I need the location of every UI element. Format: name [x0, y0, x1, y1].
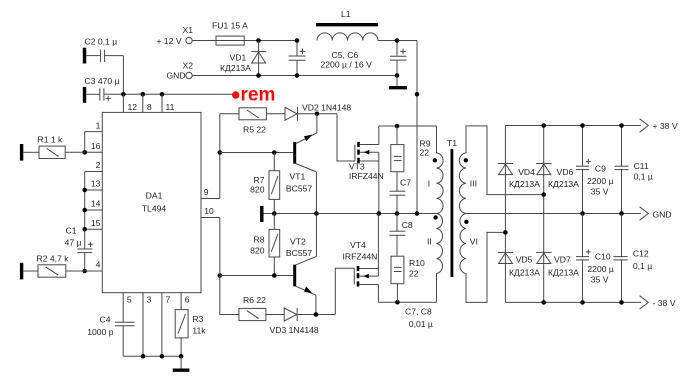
svg-text:КД213А: КД213А: [509, 179, 540, 189]
svg-text:IRFZ44N: IRFZ44N: [343, 252, 378, 262]
wire L1 to corner: [378, 40, 417, 42]
capacitor C1 47u: [65, 225, 94, 271]
node C1 bottom / pin4: [82, 269, 87, 274]
node pin7 bottom: [160, 354, 165, 359]
wire pin10 down to R6: [220, 218, 239, 315]
ground bar middle rail: [260, 206, 263, 222]
svg-text:2200 µ: 2200 µ: [587, 176, 614, 186]
op-amp/controller IC DA1 TL494: [102, 112, 201, 292]
ground at IC bottom: [173, 356, 190, 370]
pin 10 stub: [201, 217, 220, 219]
svg-text:11k: 11k: [192, 325, 206, 335]
svg-text:C11: C11: [634, 161, 649, 171]
svg-text:35 V: 35 V: [591, 274, 609, 284]
node C5 top: [295, 38, 300, 43]
svg-text:8: 8: [147, 102, 152, 112]
diode string VD4/VD5 vertical: [504, 126, 506, 303]
svg-text:C7, C8: C7, C8: [405, 306, 432, 316]
svg-text:DA1: DA1: [146, 190, 163, 200]
wire VT3 drain to winding I: [379, 125, 437, 127]
wire X1 to FU1: [192, 40, 216, 42]
diode VD6 КД213А: [536, 164, 579, 190]
node C11 bottom: [619, 211, 624, 216]
svg-text:TL494: TL494: [142, 204, 167, 214]
diode string VD6/VD7 vertical: [543, 126, 545, 303]
resistor R10 22: [391, 256, 425, 302]
svg-text:X2: X2: [183, 60, 194, 70]
pin 7 wire: [161, 293, 163, 357]
IC supply wire to rem point: [123, 93, 235, 95]
svg-text:4: 4: [96, 259, 101, 269]
svg-text:КД213А: КД213А: [220, 63, 251, 73]
capacitor C7: [390, 178, 412, 214]
terminal X1 +12V: [157, 25, 194, 46]
svg-text:3: 3: [147, 295, 152, 305]
node C5 bottom: [295, 73, 300, 78]
svg-text:R3: R3: [192, 314, 203, 324]
svg-text:6: 6: [185, 295, 190, 305]
wire VT2 collector up: [315, 214, 317, 257]
svg-text:47 µ: 47 µ: [65, 238, 82, 248]
svg-text:1000 p: 1000 p: [87, 327, 114, 337]
node pin8 stub: [141, 92, 146, 97]
svg-text:VD4: VD4: [518, 167, 535, 177]
svg-text:- 38 V: - 38 V: [653, 298, 676, 308]
rem marker (red): [232, 85, 275, 106]
diode VD7 КД213А: [536, 252, 579, 277]
pin 6 wire: [180, 293, 182, 310]
+38V rail: [505, 119, 677, 132]
capacitor C2 0,1u: [85, 37, 124, 64]
svg-text:rem: rem: [241, 85, 276, 106]
svg-text:КД213А: КД213А: [548, 179, 579, 189]
svg-text:+ 12 V: + 12 V: [157, 36, 182, 46]
svg-text:R6 22: R6 22: [243, 295, 266, 305]
node VT3 source on rail: [377, 211, 382, 216]
node R8 bottom: [272, 273, 277, 278]
-38V rail: [505, 296, 675, 309]
label C5,C6: [321, 50, 373, 69]
svg-text:III: III: [470, 178, 477, 188]
inductor L1: [316, 9, 378, 41]
svg-text:12: 12: [128, 102, 138, 112]
svg-text:16: 16: [91, 141, 101, 151]
resistor R6 22: [239, 295, 284, 320]
svg-text:22: 22: [409, 268, 419, 278]
diode VD1 КД213А: [220, 41, 266, 76]
transistor VT2 BC557: [286, 237, 317, 315]
svg-text:C7: C7: [400, 178, 411, 188]
node C6 top: [395, 38, 400, 43]
svg-text:VD2 1N4148: VD2 1N4148: [302, 102, 351, 112]
wire node to VT4 gate: [335, 268, 354, 314]
wire VT1 collector down: [315, 172, 317, 214]
resistor R2 4,7k: [22, 254, 103, 280]
svg-text:VT4: VT4: [350, 240, 366, 250]
capacitor C4 1000p: [87, 314, 134, 356]
resistor R3 11k: [175, 310, 206, 357]
svg-text:VD7: VD7: [554, 255, 571, 265]
node R10 bottom: [395, 300, 400, 305]
svg-text:КД213А: КД213А: [509, 267, 540, 277]
node snubber mid: [395, 211, 400, 216]
svg-text:T1: T1: [447, 138, 457, 148]
svg-text:0,1 µ: 0,1 µ: [633, 261, 652, 271]
node pin15/C1: [82, 227, 87, 232]
pin 5 wire: [122, 293, 124, 323]
svg-text:I: I: [428, 178, 430, 188]
node pin13: [82, 188, 87, 193]
capacitor C5 (left half, electrolytic): [289, 41, 306, 76]
capacitor C11 0,1u: [614, 126, 653, 214]
winding VI polarity dot: [464, 220, 468, 224]
svg-text:14: 14: [91, 199, 101, 209]
svg-text:X1: X1: [183, 25, 194, 35]
resistor R9 22: [391, 126, 431, 191]
svg-text:2200 µ / 16 V: 2200 µ / 16 V: [321, 59, 373, 69]
svg-text:R2 4,7 k: R2 4,7 k: [37, 254, 70, 264]
transistor VT3 IRFZ44N: [349, 126, 384, 214]
ground below C6: [389, 76, 407, 88]
node pin10/base wire: [218, 273, 223, 278]
+12V feed wire down to center tap: [416, 41, 418, 214]
svg-text:820: 820: [250, 185, 265, 195]
svg-text:BC557: BC557: [286, 183, 312, 193]
svg-text:C9: C9: [595, 163, 606, 173]
node C10 bottom: [580, 300, 585, 305]
node pin9/base wire: [218, 150, 223, 155]
terminal X2 GND: [167, 60, 194, 80]
winding II polarity dot: [433, 215, 437, 219]
pin 3 wire: [142, 293, 144, 357]
middle common rail: [264, 213, 437, 215]
resistor R5 22: [220, 108, 285, 135]
diode VD3 1N4148: [270, 308, 336, 335]
svg-text:GND: GND: [167, 71, 186, 81]
svg-text:C1: C1: [66, 225, 77, 235]
node pin16/R1: [82, 150, 87, 155]
wire VT4 drain to winding II: [378, 301, 436, 303]
svg-text:13: 13: [91, 179, 101, 189]
svg-text:R1 1 k: R1 1 k: [38, 135, 64, 145]
svg-text:L1: L1: [341, 9, 351, 19]
node C11 top: [619, 123, 624, 128]
node R7/R8: [272, 211, 277, 216]
svg-text:R8: R8: [254, 235, 265, 245]
svg-text:2200 µ: 2200 µ: [587, 264, 614, 274]
svg-text:VD3 1N4148: VD3 1N4148: [270, 325, 319, 335]
svg-text:9: 9: [204, 187, 209, 197]
node C9 top: [580, 123, 585, 128]
pin 9 stub: [201, 198, 220, 200]
resistor R1 1k: [22, 135, 85, 161]
fuse FU1 15 A: [212, 21, 259, 45]
capacitor C3 470u: [85, 76, 124, 103]
node R9 top: [395, 124, 400, 129]
svg-text:35 V: 35 V: [591, 187, 609, 197]
node VT4 source on rail: [377, 212, 379, 214]
node VD1 bottom: [256, 73, 261, 78]
node VD7 bottom: [541, 300, 546, 305]
svg-text:КД213А: КД213А: [548, 267, 579, 277]
svg-text:VD1: VD1: [230, 52, 247, 62]
svg-text:VT2: VT2: [290, 237, 306, 247]
svg-text:VI: VI: [470, 237, 478, 247]
wire node to VT3 gate: [337, 114, 355, 161]
node C9 bottom: [580, 211, 585, 216]
capacitor C10 2200u 35V: [576, 214, 614, 303]
svg-text:11: 11: [166, 102, 175, 112]
wire VT1 base: [220, 152, 294, 154]
svg-text:0,1 µ: 0,1 µ: [634, 171, 653, 181]
node collectors: [314, 211, 319, 216]
svg-text:820: 820: [250, 246, 265, 256]
svg-text:FU1 15 A: FU1 15 A: [212, 21, 248, 31]
svg-text:C8: C8: [402, 220, 413, 230]
T1 winding VI (secondary bottom) and bridge to VD4/VD5: [460, 214, 505, 303]
svg-text:VD6: VD6: [557, 167, 574, 177]
node VD3/VT2 emitter: [314, 312, 319, 317]
node pin12 stub: [121, 92, 126, 97]
svg-text:VD5: VD5: [516, 255, 533, 265]
node pin14: [82, 208, 87, 213]
label C7,C8 value: [405, 306, 433, 329]
svg-text:IRFZ44N: IRFZ44N: [349, 171, 384, 181]
svg-text:2: 2: [96, 160, 101, 170]
T1 winding I (primary top): [428, 126, 443, 214]
transformer T1 core: [447, 138, 457, 277]
wire C2 down to supply node: [122, 56, 124, 95]
svg-text:VT3: VT3: [349, 162, 365, 172]
node C6 bottom: [395, 73, 400, 78]
T1 winding II (primary bottom): [427, 214, 443, 303]
node pin11 stub: [160, 92, 165, 97]
node C12 bottom: [619, 300, 624, 305]
svg-text:C2 0,1 µ: C2 0,1 µ: [85, 37, 118, 47]
svg-text:22: 22: [420, 147, 430, 157]
pins 1+16 tie bracket: [85, 132, 103, 153]
pins 2+13+14+15 tie bracket: [85, 172, 103, 230]
node winding VI to string A: [503, 230, 508, 235]
capacitor C12 0,1u: [613, 214, 652, 303]
T1 winding III (secondary top) and bridge to VD6/VD7: [459, 126, 543, 214]
capacitor C9 2200u 35V: [576, 126, 614, 214]
node top of VD1: [256, 38, 261, 43]
resistor R7 820: [250, 153, 280, 214]
node VD2/VT1 emitter: [315, 112, 320, 117]
diode VD2 1N4148: [285, 102, 351, 120]
svg-text:R10: R10: [409, 258, 425, 268]
winding III polarity dot: [464, 158, 468, 162]
svg-text:GND: GND: [653, 209, 672, 219]
svg-text:+ 38 V: + 38 V: [653, 121, 678, 131]
capacitor C8: [390, 214, 413, 257]
diode VD4 КД213А: [498, 164, 540, 190]
winding I polarity dot: [433, 158, 437, 162]
capacitor C6 (right half, electrolytic): [390, 41, 407, 76]
svg-text:1: 1: [96, 121, 101, 131]
wire VT2 base: [220, 275, 294, 277]
node VD6 top: [541, 123, 546, 128]
svg-text:7: 7: [166, 295, 171, 305]
node center tap: [415, 211, 420, 216]
svg-text:10: 10: [204, 206, 214, 216]
node R7 top: [272, 150, 277, 155]
svg-text:C3 470 µ: C3 470 µ: [85, 76, 120, 86]
svg-text:R5 22: R5 22: [243, 124, 266, 134]
svg-text:C4: C4: [100, 314, 111, 324]
svg-text:15: 15: [91, 218, 101, 228]
node on +12V feed: [415, 92, 420, 97]
svg-text:C12: C12: [633, 249, 649, 259]
transistor VT1 BC557: [286, 114, 317, 194]
wire FU1 to C5 node: [244, 40, 297, 42]
diode VD5 КД213А: [498, 252, 540, 277]
svg-text:BC557: BC557: [286, 248, 312, 258]
svg-text:0,01 µ: 0,01 µ: [409, 319, 433, 329]
wire X2 bottom rail: [192, 75, 397, 77]
svg-text:II: II: [427, 237, 432, 247]
bottom pins common wire: [123, 355, 181, 357]
svg-text:C10: C10: [595, 251, 611, 261]
node winding III to string B: [541, 192, 546, 197]
resistor R8 820: [250, 214, 280, 276]
node pin6 bottom: [179, 354, 184, 359]
transistor VT4 IRFZ44N: [343, 214, 379, 303]
GND rail: [466, 207, 672, 220]
svg-text:5: 5: [127, 295, 132, 305]
svg-text:VT1: VT1: [290, 172, 306, 182]
node pin3 bottom: [141, 354, 146, 359]
wire pin9 up to R5: [219, 114, 221, 199]
